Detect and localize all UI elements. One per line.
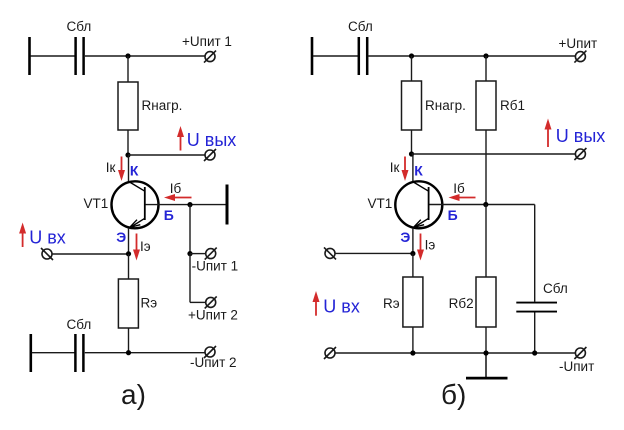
wire output (б) xyxy=(412,153,576,155)
capacitor Сбл right (б) xyxy=(516,303,557,312)
wire xyxy=(189,205,191,254)
junction emitter node (a) xyxy=(126,251,131,256)
arrow Iб (a) xyxy=(164,194,192,201)
svg-text:Rб2: Rб2 xyxy=(449,296,474,311)
svg-text:К: К xyxy=(414,162,423,178)
wire base to Сбл (б) xyxy=(534,205,536,302)
junction collector node (a) xyxy=(125,152,130,157)
terminal -Uпит 1 xyxy=(205,248,217,260)
wire xyxy=(190,301,206,303)
terminal input (a) xyxy=(41,248,53,260)
svg-text:Iб: Iб xyxy=(170,181,182,196)
wire xyxy=(412,254,414,278)
wire xyxy=(411,130,413,154)
wire xyxy=(313,55,358,57)
svg-text:+Uпит: +Uпит xyxy=(559,36,598,51)
svg-text:Сбл: Сбл xyxy=(543,281,568,296)
arrow U вх (б) xyxy=(313,291,320,316)
svg-text:VT1: VT1 xyxy=(84,196,109,211)
svg-text:Б: Б xyxy=(448,207,458,223)
wire xyxy=(85,55,205,57)
wire emitter lead (б) xyxy=(412,228,414,254)
svg-text:U вх: U вх xyxy=(29,227,66,247)
resistor Rб1 xyxy=(476,81,496,130)
resistor Rнагр (a) xyxy=(118,82,138,130)
wire xyxy=(31,55,76,57)
svg-text:Э: Э xyxy=(400,229,410,245)
svg-text:Rнагр.: Rнагр. xyxy=(142,98,183,113)
resistor Rб2 xyxy=(476,277,496,327)
terminal bar bottom-left (a) xyxy=(29,334,32,372)
terminal output (a) xyxy=(204,149,216,161)
capacitor Cбл top-left (a) xyxy=(76,37,84,75)
svg-text:Iэ: Iэ xyxy=(140,239,151,254)
wire xyxy=(485,56,487,81)
svg-text:Rэ: Rэ xyxy=(383,296,400,311)
wire base lead (б) xyxy=(429,204,534,206)
junction xyxy=(187,251,192,256)
wire input (б) xyxy=(335,252,413,254)
wire bottom rail (a) xyxy=(85,352,205,354)
junction xyxy=(125,53,130,58)
svg-text:Rэ: Rэ xyxy=(141,295,158,310)
resistor Rнагр (б) xyxy=(402,81,422,130)
junction xyxy=(483,350,488,355)
wire xyxy=(127,130,129,155)
transistor VT1 (б) base bar xyxy=(428,187,430,220)
arrow Iб (б) xyxy=(449,194,476,201)
svg-text:+Uпит 1: +Uпит 1 xyxy=(182,34,232,49)
transistor VT1 (a) base bar xyxy=(144,187,146,220)
wire top rail (б) xyxy=(368,55,576,57)
junction xyxy=(410,350,415,355)
svg-text:Б: Б xyxy=(164,207,174,223)
ground xyxy=(466,353,508,378)
terminal bar top-left (б) xyxy=(311,37,314,75)
wire bottom rail (б) xyxy=(335,352,576,354)
wire xyxy=(189,254,191,303)
svg-text:Э: Э xyxy=(116,229,126,245)
wire xyxy=(190,253,206,255)
transistor VT1 (б) collector stroke xyxy=(413,182,429,192)
svg-text:а): а) xyxy=(121,379,146,410)
terminal input (б) xyxy=(324,247,336,259)
terminal +Uпит 2 xyxy=(205,296,217,308)
wire xyxy=(411,56,413,81)
arrow Iк (a) xyxy=(118,157,125,182)
wire base to Rб2 (б) xyxy=(485,205,487,278)
terminal +Uпит 1 xyxy=(204,51,216,63)
svg-text:Rб1: Rб1 xyxy=(500,98,525,113)
svg-text:-Uпит 1: -Uпит 1 xyxy=(192,259,239,274)
wire output (a) xyxy=(128,154,205,156)
wire xyxy=(127,56,129,82)
terminal -Uпит (б) xyxy=(574,347,586,359)
junction base node (б) xyxy=(483,202,488,207)
svg-text:-Uпит 2: -Uпит 2 xyxy=(190,355,237,370)
arrow Iэ (a) xyxy=(133,234,140,261)
svg-text:U вых: U вых xyxy=(556,126,606,146)
capacitor Cбл bottom-left (a) xyxy=(75,334,83,372)
wire xyxy=(412,327,414,353)
arrow Iк (б) xyxy=(402,157,409,182)
terminal bar base (a) xyxy=(226,185,229,225)
wire input (a) xyxy=(52,253,129,255)
svg-text:Сбл: Сбл xyxy=(67,19,92,34)
svg-text:+Uпит 2: +Uпит 2 xyxy=(188,308,238,323)
transistor VT1 (a) collector stroke xyxy=(129,182,145,192)
arrow Iэ (б) xyxy=(417,234,424,261)
svg-text:Сбл: Сбл xyxy=(348,19,373,34)
wire xyxy=(485,327,487,353)
svg-text:Iэ: Iэ xyxy=(425,237,436,252)
junction xyxy=(126,350,131,355)
junction xyxy=(483,53,488,58)
svg-text:VT1: VT1 xyxy=(368,196,393,211)
transistor VT1 (a) body xyxy=(112,181,159,228)
svg-text:Iб: Iб xyxy=(453,181,465,196)
arrow U вых (б) xyxy=(545,119,552,148)
wire collector lead (б) xyxy=(412,154,414,182)
terminal +Uпит (б) xyxy=(574,51,586,63)
wire xyxy=(128,328,130,353)
junction collector node (б) xyxy=(409,151,414,156)
arrow U вых (a) xyxy=(177,126,184,151)
svg-text:б): б) xyxy=(441,379,466,410)
junction xyxy=(532,350,537,355)
wire collector lead (a) xyxy=(128,155,130,182)
wire base lead (a) xyxy=(146,204,226,206)
wire xyxy=(534,313,536,354)
resistor Rэ (a) xyxy=(118,279,138,328)
svg-text:U вх: U вх xyxy=(323,297,360,317)
svg-text:U вых: U вых xyxy=(187,130,237,150)
svg-text:Iк: Iк xyxy=(106,160,116,175)
resistor Rэ (б) xyxy=(403,277,423,327)
transistor VT1 (б) body xyxy=(395,181,442,228)
transistor VT1 (a) emitter stroke with arrow xyxy=(129,218,145,228)
junction base node (a) xyxy=(187,202,192,207)
capacitor Cбл top (б) xyxy=(359,37,367,75)
arrow U вх (a) xyxy=(19,223,26,248)
terminal bottom-left (б) xyxy=(324,347,336,359)
wire xyxy=(128,254,130,279)
svg-text:Rнагр.: Rнагр. xyxy=(425,98,466,113)
svg-text:Сбл: Сбл xyxy=(67,317,92,332)
svg-text:-Uпит: -Uпит xyxy=(559,359,594,374)
terminal -Uпит 2 xyxy=(204,346,216,358)
svg-text:Iк: Iк xyxy=(390,160,400,175)
terminal bar top-left (a) xyxy=(28,37,31,75)
svg-text:К: К xyxy=(130,162,139,178)
junction emitter node (б) xyxy=(410,251,415,256)
wire Rб1 to base (б) xyxy=(485,130,487,205)
wire emitter lead (a) xyxy=(128,228,130,254)
wire xyxy=(32,352,75,354)
terminal output (б) xyxy=(574,148,586,160)
junction xyxy=(409,53,414,58)
transistor VT1 (б) emitter stroke with arrow xyxy=(413,218,429,228)
